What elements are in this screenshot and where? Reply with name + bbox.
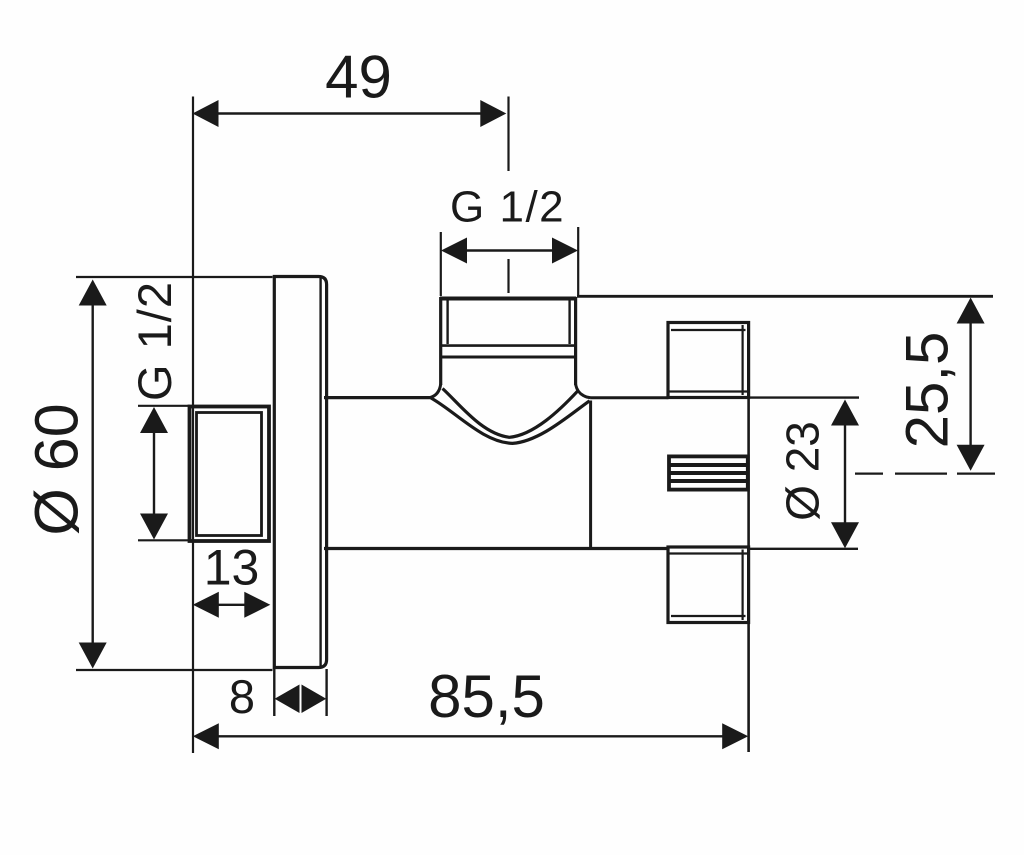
dim D60 extension bottom	[76, 669, 273, 671]
fillet outlet-to-body left	[430, 384, 441, 398]
arrow D60 down	[79, 643, 107, 669]
dim D23 extension top	[750, 396, 859, 398]
handle bottom block inner right line	[741, 550, 743, 621]
dim 13 extension right / flange edge extended	[273, 667, 275, 716]
arrow 8 left	[275, 685, 300, 714]
centerline dash-dot segment 3	[957, 473, 995, 475]
handle top block	[668, 323, 749, 398]
svg-text:25,5: 25,5	[894, 332, 961, 449]
knurl line 3	[669, 479, 748, 483]
arrow D23 up	[831, 400, 859, 426]
dim G1/2 top extension right	[577, 227, 579, 296]
outlet thread left edge	[439, 297, 442, 385]
dim 25,5 extension top	[577, 295, 993, 298]
arrow 25,5 down	[957, 445, 985, 471]
svg-text:49: 49	[325, 44, 392, 111]
fillet outlet-to-bonnet right	[576, 385, 591, 398]
dim 25,5 line	[969, 302, 971, 466]
wall flange plate	[274, 277, 326, 668]
bonnet seam line	[589, 401, 592, 549]
svg-text:85,5: 85,5	[428, 663, 545, 730]
knurl line 1	[669, 463, 748, 467]
arrow G1/2 top right	[552, 238, 578, 264]
outlet thread G1/2 top face	[440, 297, 576, 301]
outlet thread bottom line	[441, 344, 576, 347]
handle top block inner top line	[671, 329, 746, 331]
dim 49 extension left (long)	[192, 97, 194, 754]
handle bottom block	[668, 547, 749, 623]
handle bottom block inner bottom line	[671, 615, 746, 617]
svg-text:Ø 23: Ø 23	[777, 421, 829, 521]
arrow 85,5 left	[193, 723, 219, 749]
handle bottom block inner top line	[668, 552, 749, 554]
dim G1/2 top line	[444, 249, 575, 251]
saddle inner curve	[443, 389, 578, 438]
handle knurl block	[669, 456, 748, 489]
saddle outer curve	[431, 398, 590, 443]
outlet thread right edge	[574, 297, 577, 385]
arrow 49 left	[193, 100, 219, 127]
arrow D60 up	[79, 280, 107, 306]
svg-text:G 1/2: G 1/2	[450, 183, 565, 232]
outlet thread inner right line	[568, 300, 570, 344]
handle top block inner right line	[741, 325, 743, 395]
arrow 25,5 up	[957, 298, 985, 324]
centerline dash-dot segment 1	[855, 473, 883, 475]
body bottom line	[324, 547, 669, 550]
handle top block inner bottom line	[668, 390, 749, 392]
dim G1/2 left extension top	[138, 405, 190, 407]
arrow 8 right	[302, 685, 327, 714]
body top line (left of outlet)	[324, 396, 431, 399]
svg-text:G 1/2: G 1/2	[128, 281, 181, 401]
centerline dash-dot segment 2	[895, 473, 947, 475]
arrow G1/2 left up	[140, 407, 168, 433]
dim 49 extension right	[507, 97, 509, 172]
arrow 85,5 right	[722, 723, 748, 749]
dim D23 line	[844, 404, 846, 545]
inlet square thread (left G1/2 connection, outer)	[190, 407, 270, 542]
dim 8 extension right	[325, 669, 327, 716]
outlet thread inner left line	[446, 300, 448, 344]
dim G1/2 left extension bottom	[138, 539, 190, 541]
dim G1/2 top extension left	[440, 232, 442, 296]
arrow 13 right	[244, 592, 270, 618]
arrow 13 left	[193, 592, 219, 618]
dim G1/2 left line	[153, 412, 155, 536]
arrow D23 down	[831, 522, 859, 548]
wall flange inner face line	[319, 278, 321, 666]
dim D60 extension top	[76, 276, 273, 278]
arrow G1/2 left down	[140, 514, 168, 540]
dim D23 extension bottom	[750, 548, 858, 550]
arrow 49 right	[480, 100, 506, 127]
knurl line 2	[669, 471, 748, 475]
svg-text:Ø 60: Ø 60	[23, 403, 91, 535]
dim 49 line	[196, 112, 502, 114]
dim D60 line	[91, 284, 93, 664]
dim 85,5 line	[196, 735, 745, 737]
dim 13 line	[216, 604, 247, 606]
bonnet top line	[591, 396, 669, 399]
svg-text:8: 8	[229, 670, 255, 723]
arrow G1/2 top left	[441, 238, 467, 264]
outlet centerline tick	[507, 259, 509, 293]
inlet square thread inner line	[197, 413, 262, 536]
outlet relief shoulder line	[441, 356, 576, 359]
handle right edge line	[747, 323, 750, 753]
svg-text:13: 13	[204, 540, 260, 596]
